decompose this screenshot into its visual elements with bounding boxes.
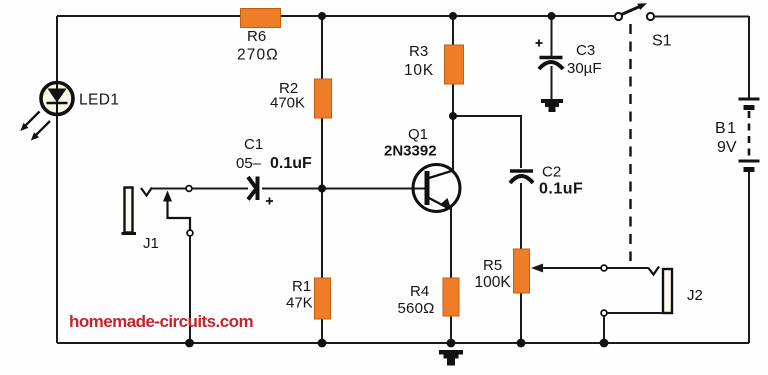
svg-text:05–: 05– — [236, 155, 262, 172]
svg-text:470K: 470K — [270, 95, 305, 112]
svg-text:R6: R6 — [247, 28, 266, 45]
svg-text:100K: 100K — [475, 274, 512, 291]
ground under R4 — [439, 350, 463, 366]
switch S1 — [615, 3, 654, 20]
junction collector node — [449, 112, 457, 120]
resistor R4 — [443, 278, 459, 316]
wire R3/Q1/R4 column — [451, 16, 453, 343]
junction top rail at R3 — [449, 12, 457, 20]
junction bottom rail at R4 — [447, 339, 456, 348]
capacitor C1 — [248, 177, 258, 201]
svg-text:R5: R5 — [483, 257, 502, 274]
svg-text:LED1: LED1 — [79, 92, 119, 109]
C3 plus sign — [536, 40, 543, 47]
junction C1 output node — [318, 185, 326, 193]
svg-text:0.1uF: 0.1uF — [270, 155, 312, 172]
svg-text:0.1uF: 0.1uF — [539, 181, 583, 198]
wire C3 column — [551, 16, 553, 100]
wire top rail — [57, 15, 749, 18]
svg-text:30µF: 30µF — [567, 60, 602, 77]
svg-text:270Ω: 270Ω — [237, 47, 279, 64]
wire collector-to-C2 branch — [453, 116, 521, 168]
resistor R2 — [315, 79, 332, 118]
junction top rail at C3 — [548, 12, 556, 20]
LED LED1 — [41, 83, 73, 115]
svg-text:2N3392: 2N3392 — [384, 143, 437, 160]
capacitor C2 — [510, 171, 533, 183]
svg-text:R3: R3 — [409, 43, 428, 60]
svg-text:Q1: Q1 — [408, 126, 428, 143]
capacitor C3 — [539, 58, 563, 70]
wire C2-to-R5 column — [520, 183, 522, 343]
transistor Q1 — [413, 165, 460, 212]
svg-text:S1: S1 — [652, 33, 672, 50]
svg-text:9V: 9V — [717, 139, 737, 156]
ground under C3 — [541, 99, 563, 112]
wire right rail — [748, 16, 750, 343]
svg-text:10K: 10K — [404, 62, 434, 79]
junction bottom rail at R1 — [318, 339, 327, 348]
wire bottom rail — [57, 342, 749, 344]
svg-text:homemade-circuits.com: homemade-circuits.com — [69, 312, 253, 331]
junction bottom rail at R5 — [517, 339, 526, 348]
svg-text:C3: C3 — [576, 42, 595, 59]
svg-text:C2: C2 — [542, 164, 561, 181]
svg-text:R1: R1 — [292, 278, 311, 295]
svg-text:47K: 47K — [286, 295, 313, 312]
svg-text:R4: R4 — [410, 283, 429, 300]
LED light arrows — [20, 112, 50, 141]
wire left rail — [56, 16, 58, 343]
resistor R3 — [445, 45, 464, 84]
svg-text:J2: J2 — [687, 287, 703, 304]
dashed link S1-J2 — [629, 24, 631, 261]
wiper arrow wire R5-J2 — [531, 264, 601, 273]
wire input row J1-C1-base — [192, 188, 425, 190]
wire R2/R1 column — [321, 16, 323, 343]
battery B1 — [739, 99, 760, 170]
jack J2 — [601, 265, 672, 343]
potentiometer R5 — [514, 249, 530, 293]
svg-text:560Ω: 560Ω — [398, 300, 435, 317]
junction bottom rail at J2 — [600, 339, 609, 348]
junction top rail at R2 — [318, 12, 326, 20]
svg-text:C1: C1 — [244, 136, 263, 153]
jack J1 — [122, 186, 193, 343]
resistor R6 — [241, 9, 281, 28]
svg-text:B1: B1 — [715, 120, 738, 137]
resistor R1 — [315, 278, 331, 319]
svg-text:J1: J1 — [143, 235, 159, 252]
C1 plus sign — [266, 198, 273, 205]
junction bottom rail at J1 — [185, 339, 194, 348]
